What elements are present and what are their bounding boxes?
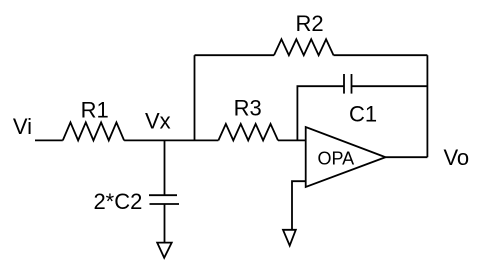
- svg-text:C1: C1: [349, 102, 377, 127]
- svg-text:Vi: Vi: [13, 114, 32, 139]
- svg-text:R3: R3: [234, 96, 262, 121]
- svg-text:OPA: OPA: [317, 148, 354, 168]
- svg-text:2*C2: 2*C2: [93, 189, 142, 214]
- svg-text:R2: R2: [295, 11, 323, 36]
- svg-text:R1: R1: [81, 97, 109, 122]
- svg-text:Vo: Vo: [443, 145, 469, 170]
- svg-text:Vx: Vx: [145, 108, 171, 133]
